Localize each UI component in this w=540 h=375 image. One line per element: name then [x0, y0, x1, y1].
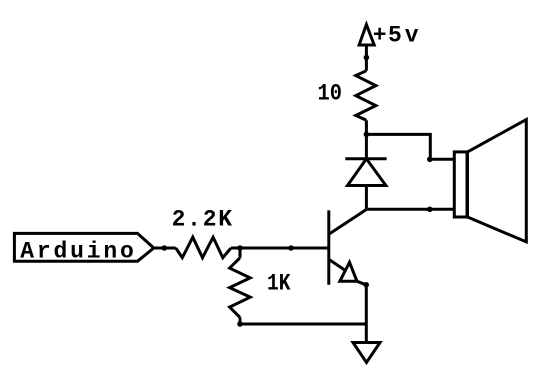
svg-text:+5v: +5v [373, 22, 419, 48]
svg-text:10: 10 [318, 80, 343, 106]
svg-text:Arduino: Arduino [20, 239, 134, 265]
svg-text:1K: 1K [267, 270, 291, 296]
svg-text:2.2K: 2.2K [172, 207, 233, 233]
